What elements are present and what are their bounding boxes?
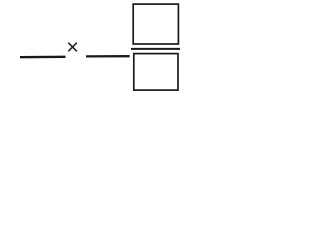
fraction bar xyxy=(131,48,180,50)
wire (left blank line) xyxy=(20,56,66,59)
denominator box xyxy=(134,54,178,91)
multiplication sign xyxy=(68,43,77,52)
numerator box xyxy=(133,4,178,44)
wire (right blank line) xyxy=(86,55,130,58)
